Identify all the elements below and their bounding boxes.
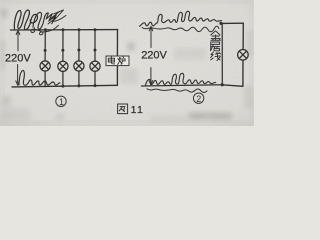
- middle vertical wire: [221, 23, 223, 84]
- wire: lamp branch 3 upper: [78, 30, 80, 61]
- junction dot bottom 2: [61, 85, 64, 88]
- svg-text:220V: 220V: [5, 52, 31, 64]
- glyph 属: [211, 42, 220, 51]
- mid-branch blob 1: [44, 49, 47, 52]
- wire: right vertical upper: [242, 23, 244, 49]
- glyph 线: [211, 52, 221, 61]
- wire: lamp branch 1 lower: [44, 71, 46, 87]
- wire: top bus of circuit 1: [11, 29, 118, 31]
- wire: lamp branch 2 upper: [62, 30, 64, 61]
- up arrow circuit 2: [149, 26, 153, 47]
- scribble on bottom-left wire: [19, 70, 60, 85]
- wire: right vertical below furnace: [116, 66, 118, 86]
- wavy underline bottom: [147, 89, 207, 93]
- lamp L5: [238, 50, 249, 61]
- junction dot top 3: [78, 28, 81, 31]
- wire: right vertical drop to furnace, upper: [116, 30, 118, 56]
- wavy underline top: [142, 26, 219, 31]
- mid-branch blob 2: [61, 49, 64, 52]
- svg-text:1: 1: [59, 97, 64, 107]
- glyph 电: [108, 57, 115, 64]
- lamp L3: [74, 61, 84, 71]
- up arrow circuit 1: [16, 30, 20, 51]
- lamp L1: [40, 61, 50, 71]
- wire: lamp branch 3 lower: [78, 71, 80, 86]
- down arrow circuit 2: [149, 68, 153, 86]
- svg-text:220V: 220V: [141, 50, 167, 62]
- caption glyph 图: [118, 104, 128, 114]
- junction dot bottom 4: [94, 84, 97, 87]
- wire: top right segment: [221, 22, 243, 24]
- paper background: [0, 0, 254, 126]
- svg-text:2: 2: [196, 94, 201, 104]
- wire: lamp branch 4 lower: [94, 71, 96, 86]
- scribble under-swirls crossing wire: [31, 25, 59, 34]
- scribble tangle on top-left wire: [14, 10, 37, 30]
- squiggle loops above bottom wire: [146, 73, 216, 85]
- junction dot bottom 3: [77, 84, 80, 87]
- down arrow circuit 1: [16, 65, 20, 86]
- junction dot top 4: [94, 28, 97, 31]
- wire: lamp branch 1 upper: [44, 30, 46, 61]
- scribble flourish tail: [48, 10, 66, 24]
- wire: bottom bus of circuit 1: [12, 85, 117, 87]
- electric furnace box: [106, 56, 129, 66]
- squiggly metal wire top: [140, 11, 222, 26]
- junction dot bottom metal wire: [221, 83, 224, 86]
- wire: bottom bus circuit 2: [142, 85, 223, 86]
- label (1): [56, 96, 66, 107]
- glyph 炉: [118, 57, 126, 65]
- junction dot top 1: [44, 28, 47, 31]
- junction dot top 2: [62, 28, 65, 31]
- mid-branch blob 4: [94, 49, 97, 52]
- wire: lamp branch 2 lower: [62, 71, 64, 86]
- scribble tangle right part: [33, 12, 56, 29]
- lamp L2: [58, 61, 68, 71]
- mid-branch blob 3: [77, 49, 80, 52]
- wire: bottom right segment: [222, 85, 243, 87]
- junction dot top metal wire: [219, 22, 222, 25]
- wire: lamp branch 4 upper: [94, 30, 96, 61]
- glyph 金: [211, 31, 221, 40]
- label (2): [193, 93, 203, 104]
- wire: right vertical lower: [242, 60, 244, 86]
- svg-text:11: 11: [131, 104, 145, 116]
- lamp L4: [90, 61, 100, 71]
